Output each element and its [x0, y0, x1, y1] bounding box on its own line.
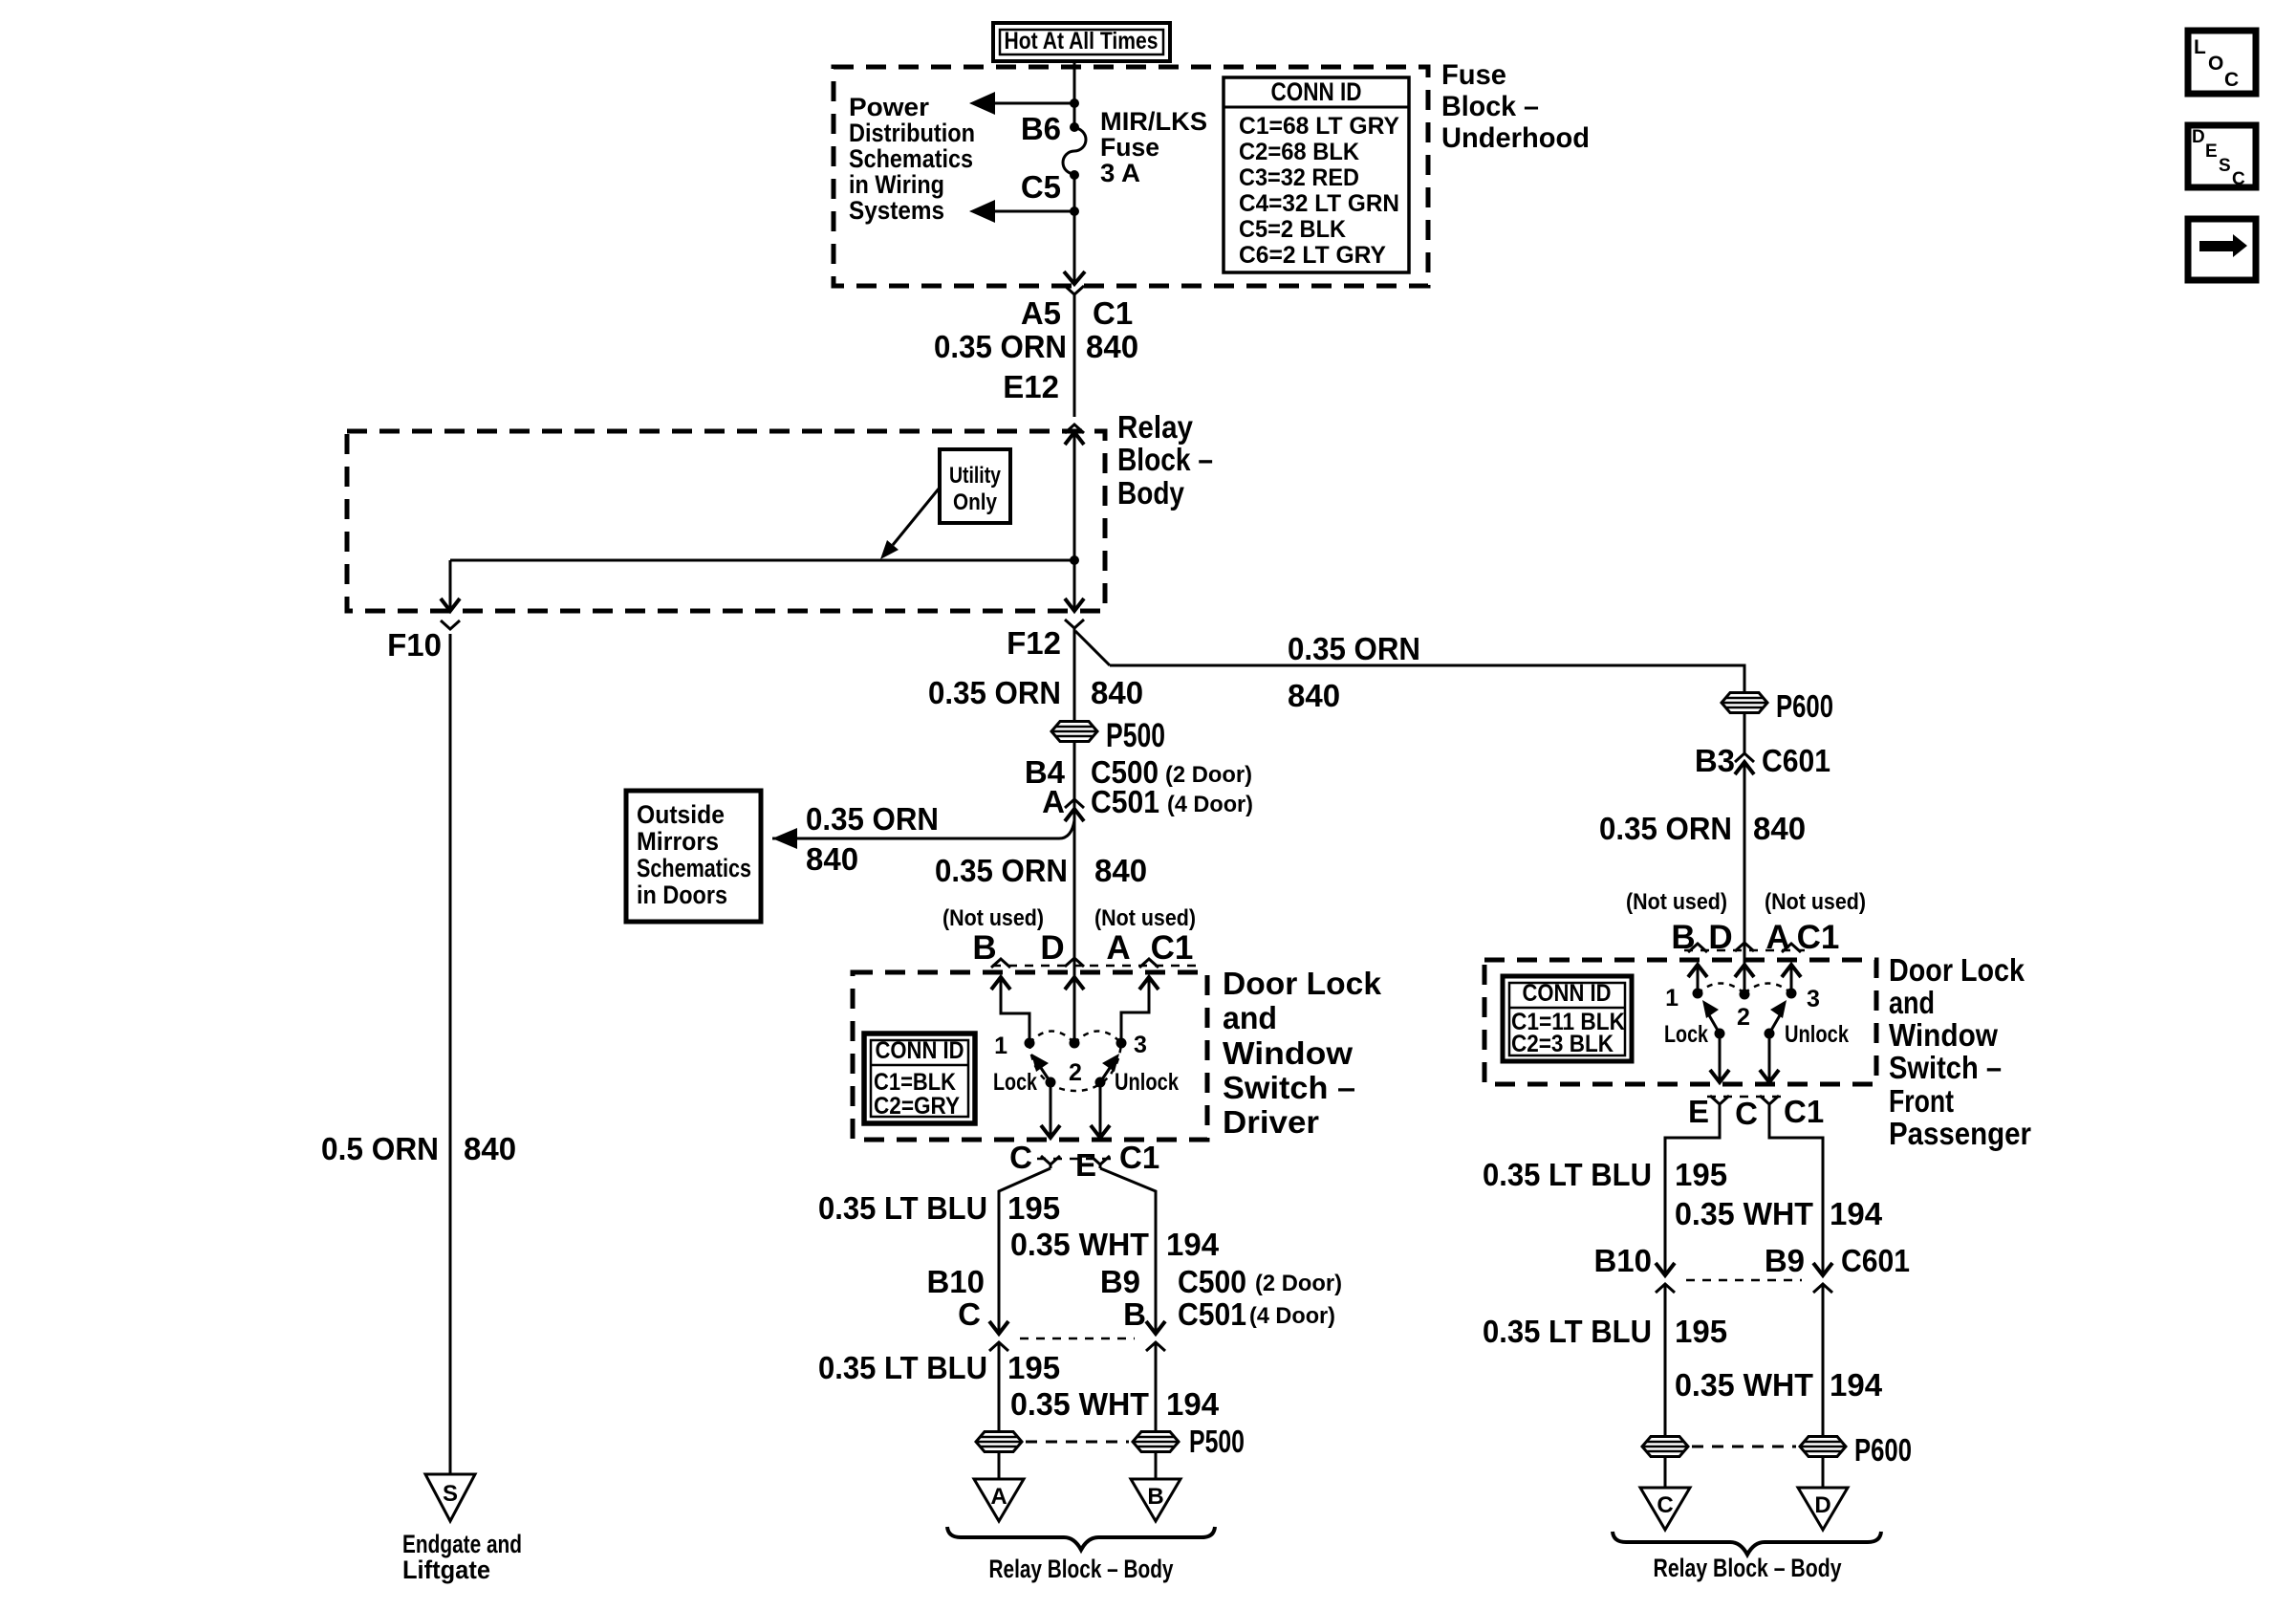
- off-page connector S (Endgate and Liftgate): [425, 1474, 475, 1521]
- terminal C triangle: [1640, 1488, 1690, 1530]
- svg-text:P600: P600: [1854, 1432, 1912, 1468]
- svg-text:3: 3: [1807, 986, 1820, 1012]
- svg-text:Outside: Outside: [637, 800, 725, 829]
- connector row C/E/C1 below driver switch (dashed): [1037, 1158, 1114, 1161]
- wire 194: pin C jog right (passenger): [1769, 1104, 1823, 1275]
- wire label: 0.35 WHT | 194: [1010, 1227, 1220, 1262]
- wire: switch contact 1 up to pin B with arrowhead: [991, 977, 1029, 1038]
- wire: lock blade down with arrowhead (passenger): [1710, 1033, 1729, 1082]
- wire: utility branch down to F10, arrowhead at block edge: [441, 560, 460, 611]
- svg-text:CONN ID: CONN ID: [1271, 77, 1362, 106]
- svg-text:F12: F12: [1007, 625, 1061, 661]
- svg-text:Window: Window: [1889, 1017, 1998, 1053]
- svg-text:840: 840: [1094, 853, 1147, 888]
- relay block - body dashed box: [347, 431, 1105, 611]
- svg-text:194: 194: [1830, 1196, 1883, 1231]
- wire 840: down to passenger switch: [1744, 762, 1746, 990]
- label: Door Lock and Window Switch - Driver: [1223, 966, 1382, 1140]
- svg-text:C: C: [1735, 1096, 1758, 1131]
- wire: P500 to relay block terminal B: [1155, 1452, 1158, 1479]
- svg-text:A5: A5: [1021, 295, 1061, 331]
- svg-text:Unlock: Unlock: [1785, 1021, 1849, 1048]
- svg-text:0.35 LT BLU: 0.35 LT BLU: [818, 1350, 987, 1385]
- svg-text:D: D: [1814, 1492, 1830, 1518]
- wire: P500 to relay block terminal A: [998, 1452, 1001, 1479]
- svg-text:0.35 LT BLU: 0.35 LT BLU: [1483, 1157, 1652, 1192]
- connector symbol right: arrow + chevron (passenger): [1813, 1263, 1832, 1293]
- svg-text:B10: B10: [1593, 1243, 1652, 1278]
- svg-text:C5=2 BLK: C5=2 BLK: [1239, 216, 1346, 243]
- wire: feed to fuse B6: [1073, 103, 1076, 127]
- connector chevron pin E (passenger): [1710, 1096, 1729, 1104]
- connector chevron trunk at pin D: [1065, 958, 1084, 967]
- svg-text:C: C: [1657, 1492, 1673, 1518]
- svg-text:P600: P600: [1776, 688, 1833, 724]
- switch blade: Lock (passenger): [1702, 1000, 1725, 1039]
- inline connector P500 left half: [976, 1432, 1022, 1452]
- switch contact 2: [1070, 1038, 1080, 1049]
- nav box arrow: [2188, 219, 2256, 280]
- arrowhead: trunk leaving relay block at F12: [1065, 598, 1084, 611]
- wire label: 0.35 ORN | 840: [934, 329, 1138, 364]
- svg-text:O: O: [2208, 53, 2223, 75]
- junction inside relay block: [1070, 555, 1079, 565]
- wire: lock blade down to pin C with arrowhead: [1041, 1082, 1060, 1138]
- svg-text:Relay: Relay: [1117, 409, 1194, 445]
- connector symbol left: arrow + chevron (passenger): [1656, 1263, 1675, 1293]
- svg-text:1: 1: [1665, 985, 1679, 1012]
- svg-text:C: C: [2224, 69, 2239, 91]
- svg-text:195: 195: [1675, 1314, 1727, 1349]
- callout box: Outside Mirrors Schematics in Doors: [626, 791, 761, 922]
- svg-text:E12: E12: [1003, 369, 1059, 404]
- pin B6 of fuse block: [1070, 122, 1079, 132]
- brace: relay block - body (left group): [947, 1527, 1215, 1550]
- svg-text:Mirrors: Mirrors: [637, 827, 719, 856]
- wire: unlock blade down to pin E with arrowhead: [1091, 1082, 1110, 1138]
- connector symbol left: arrow + chevron: [989, 1321, 1008, 1351]
- wire label: 0.35 LT BLU | 195 (passenger second): [1483, 1314, 1727, 1349]
- junction: lower tap to power distribution: [1070, 207, 1079, 216]
- svg-text:E: E: [1688, 1094, 1709, 1129]
- svg-text:Relay Block – Body: Relay Block – Body: [989, 1555, 1174, 1583]
- inline connector P500 (trunk): [1051, 717, 1165, 754]
- svg-text:D: D: [1040, 929, 1064, 967]
- junction: top tap to power distribution: [1070, 98, 1079, 108]
- wire 194: from pin E jogging right: [1100, 1168, 1156, 1334]
- svg-text:Window: Window: [1223, 1035, 1353, 1071]
- svg-text:Lock: Lock: [1664, 1021, 1708, 1048]
- label: Endgate and Liftgate: [402, 1530, 522, 1584]
- pins B D A C1 at passenger switch connector: [1671, 919, 1839, 956]
- svg-text:840: 840: [1086, 329, 1138, 364]
- terminal D triangle: [1798, 1488, 1848, 1530]
- label: Fuse Block - Underhood: [1441, 59, 1590, 154]
- svg-text:and: and: [1889, 985, 1935, 1020]
- node B+: Hot At All Times box: [993, 23, 1170, 61]
- svg-text:F10: F10: [387, 627, 442, 663]
- wire: arrow to power distribution schematics (lower): [969, 200, 1074, 223]
- svg-text:Door Lock: Door Lock: [1223, 966, 1382, 1001]
- svg-text:194: 194: [1830, 1367, 1883, 1403]
- svg-text:Relay Block – Body: Relay Block – Body: [1654, 1554, 1842, 1582]
- wire: trunk down into driver switch: [1073, 809, 1076, 1038]
- wire label: 0.35 ORN | 840 (above driver switch): [935, 853, 1147, 888]
- svg-text:Body: Body: [1117, 475, 1185, 511]
- arrow: utility only callout pointing to bus wire: [880, 488, 940, 559]
- connector chevron pin C (passenger): [1760, 1096, 1779, 1104]
- svg-text:0.35 WHT: 0.35 WHT: [1675, 1367, 1813, 1403]
- svg-text:Hot At All Times: Hot At All Times: [1005, 28, 1159, 54]
- svg-text:Only: Only: [953, 490, 998, 515]
- svg-text:C500: C500: [1178, 1264, 1246, 1299]
- svg-text:C2=3 BLK: C2=3 BLK: [1511, 1031, 1614, 1057]
- wire label: 0.35 ORN / 840 (branch): [1288, 631, 1420, 713]
- wire label: 0.35 ORN / 840 (mirror branch): [806, 801, 939, 877]
- connector F12: [1007, 620, 1084, 661]
- pin C5 of fuse block: [1070, 170, 1079, 180]
- svg-text:2: 2: [1069, 1059, 1082, 1086]
- svg-text:194: 194: [1166, 1227, 1220, 1262]
- switch contact 3 (passenger): [1787, 989, 1797, 999]
- svg-text:(Not used): (Not used): [1094, 905, 1196, 931]
- svg-text:L: L: [2194, 36, 2206, 58]
- svg-text:C1: C1: [1093, 295, 1133, 331]
- svg-text:0.5 ORN: 0.5 ORN: [321, 1131, 439, 1166]
- svg-text:3: 3: [1134, 1032, 1147, 1058]
- svg-text:Fuse: Fuse: [1441, 59, 1506, 91]
- svg-text:C2=68 BLK: C2=68 BLK: [1239, 139, 1359, 165]
- svg-text:B9: B9: [1100, 1264, 1140, 1299]
- connector F10: [387, 620, 460, 663]
- door lock and window switch - driver dashed box: [853, 972, 1207, 1140]
- svg-text:840: 840: [464, 1131, 516, 1166]
- svg-text:MIR/LKS: MIR/LKS: [1100, 107, 1207, 136]
- svg-text:P500: P500: [1106, 717, 1165, 754]
- nav box DESC: [2188, 125, 2256, 189]
- wire: branch to outside mirrors schematics with arrow: [772, 820, 1074, 849]
- svg-text:Block –: Block –: [1441, 91, 1539, 122]
- switch contact 1: [1025, 1038, 1035, 1049]
- wire label: 0.35 WHT | 194 (passenger second): [1675, 1367, 1883, 1403]
- wire 195: pin E jog left (passenger): [1665, 1104, 1720, 1275]
- svg-text:C501: C501: [1178, 1296, 1246, 1332]
- pins B D A C1 at driver switch connector: [972, 929, 1193, 967]
- svg-text:840: 840: [1288, 678, 1340, 713]
- CONN ID table of fuse block underhood: [1224, 77, 1409, 272]
- svg-text:C: C: [1009, 1140, 1032, 1175]
- wire label: 0.35 WHT | 194 (second): [1010, 1386, 1220, 1422]
- svg-text:0.35 WHT: 0.35 WHT: [1675, 1196, 1813, 1231]
- connector chevron pin C: [1041, 1156, 1060, 1168]
- svg-text:(Not used): (Not used): [1765, 889, 1866, 915]
- svg-text:C1: C1: [1784, 1094, 1824, 1129]
- connector row C1 at driver switch top (dashed): [992, 965, 1197, 968]
- svg-text:840: 840: [1091, 675, 1143, 710]
- svg-text:Switch –: Switch –: [1889, 1050, 2002, 1085]
- wire: branch from F12 to front passenger switch (diagonal): [1075, 631, 1110, 665]
- wire 840: branch to front passenger (horizontal): [1110, 665, 1744, 692]
- switch gang dashed arcs: [1029, 1032, 1121, 1092]
- svg-text:0.35 ORN: 0.35 ORN: [935, 853, 1068, 888]
- dashed link between P600 halves: [1692, 1446, 1796, 1448]
- connector A5 / C1 (fuse block output): [1021, 286, 1133, 331]
- svg-text:A: A: [990, 1484, 1007, 1510]
- svg-text:0.35 ORN: 0.35 ORN: [928, 675, 1061, 710]
- wire label: 0.35 ORN | 840 (passenger drop): [1599, 811, 1806, 846]
- terminal B triangle: [1131, 1479, 1180, 1521]
- wire label: 0.35 WHT | 194 (passenger): [1675, 1196, 1883, 1231]
- svg-text:195: 195: [1007, 1350, 1060, 1385]
- svg-text:S: S: [443, 1481, 458, 1507]
- svg-text:0.35 WHT: 0.35 WHT: [1010, 1227, 1149, 1262]
- door lock and window switch - front passenger dashed box: [1484, 960, 1876, 1084]
- svg-text:C1: C1: [1119, 1140, 1159, 1175]
- svg-text:1: 1: [994, 1033, 1007, 1059]
- svg-text:C1=68 LT GRY: C1=68 LT GRY: [1239, 113, 1399, 140]
- wire: passenger contact 2 arrowhead: [1735, 965, 1754, 977]
- connector B3 / C601: [1695, 743, 1830, 778]
- connector chevron pin B-D (not used): [1688, 944, 1707, 952]
- svg-text:B10: B10: [926, 1264, 985, 1299]
- inline connector P600 (trunk): [1722, 688, 1833, 724]
- terminal A triangle: [974, 1479, 1024, 1521]
- svg-text:E: E: [1075, 1147, 1096, 1183]
- connector B4-C500 (2 Door) / A-C501 (4 Door): [1025, 754, 1253, 821]
- svg-text:Liftgate: Liftgate: [402, 1556, 490, 1584]
- inline connector P500 right half: [1133, 1424, 1245, 1459]
- svg-text:0.35 ORN: 0.35 ORN: [934, 329, 1067, 364]
- svg-text:Distribution: Distribution: [849, 119, 975, 147]
- wire label: 0.35 ORN | 840 (above P500): [928, 675, 1143, 710]
- svg-text:840: 840: [1753, 811, 1806, 846]
- wire 840: 0.35 ORN from fuse block to relay block: [1073, 294, 1076, 417]
- label: (Not used) pins B and A-C1 driver: [942, 905, 1196, 931]
- CONN ID table of passenger switch: [1503, 976, 1632, 1061]
- svg-text:D: D: [2192, 127, 2205, 147]
- wire 194 below connector (passenger): [1822, 1292, 1825, 1436]
- svg-text:Schematics: Schematics: [637, 854, 751, 882]
- svg-text:B9: B9: [1765, 1243, 1805, 1278]
- svg-text:C601: C601: [1762, 743, 1830, 778]
- wire: passenger contact 3 up to pin with arrowhead: [1782, 965, 1801, 989]
- svg-text:(2 Door): (2 Door): [1255, 1271, 1342, 1296]
- wire: switch contact 2 up to pin D with arrowhead: [1065, 977, 1084, 990]
- svg-text:Systems: Systems: [849, 196, 944, 225]
- svg-text:E: E: [2205, 141, 2218, 162]
- svg-text:Unlock: Unlock: [1115, 1069, 1179, 1096]
- svg-text:S: S: [2219, 156, 2231, 176]
- wire label: 0.5 ORN | 840: [321, 1131, 516, 1166]
- svg-text:(4 Door): (4 Door): [1249, 1303, 1335, 1329]
- svg-text:B: B: [1147, 1484, 1163, 1510]
- svg-text:195: 195: [1675, 1157, 1727, 1192]
- svg-text:Passenger: Passenger: [1889, 1116, 2031, 1151]
- svg-text:in Doors: in Doors: [637, 881, 727, 909]
- svg-text:CONN ID: CONN ID: [1523, 980, 1612, 1007]
- wire: fuse output leaving fuse block, arrowhead at block edge: [1064, 211, 1085, 284]
- wire: arrow to power distribution schematics (upper): [969, 92, 1074, 115]
- svg-text:(2 Door): (2 Door): [1165, 762, 1252, 788]
- svg-text:C5: C5: [1021, 169, 1061, 205]
- connector E12 into relay block: [1003, 369, 1084, 445]
- svg-text:Fuse: Fuse: [1100, 133, 1159, 162]
- wire: P600 down to B3/C601: [1744, 713, 1746, 753]
- svg-text:3 A: 3 A: [1100, 159, 1140, 187]
- brace: relay block - body (right group): [1613, 1532, 1881, 1555]
- svg-text:Utility: Utility: [949, 463, 1002, 489]
- pin labels E C C1 (passenger): [1688, 1094, 1824, 1131]
- wire 195 below connector: [998, 1350, 1001, 1432]
- svg-text:Power: Power: [849, 93, 930, 121]
- svg-text:Driver: Driver: [1223, 1104, 1319, 1140]
- svg-text:and: and: [1223, 1000, 1277, 1035]
- connector chevron trunk: [1735, 943, 1754, 951]
- connector B10 / B9-C601 labels: [1593, 1243, 1910, 1278]
- wire: horizontal bus inside relay block to utility branch: [450, 559, 1074, 562]
- svg-text:P500: P500: [1189, 1424, 1245, 1459]
- connector row E/C/C1 below passenger switch (dashed): [1707, 1096, 1782, 1099]
- svg-text:0.35 ORN: 0.35 ORN: [806, 801, 939, 837]
- fuse block - underhood dashed box: [834, 67, 1428, 286]
- connector chevron pin B (not used): [991, 959, 1010, 968]
- svg-text:B3: B3: [1695, 743, 1735, 778]
- dashed link between P500 halves: [1026, 1441, 1129, 1444]
- svg-text:C: C: [958, 1296, 981, 1332]
- label: (Not used) pins passenger: [1626, 889, 1866, 915]
- CONN ID table of driver switch: [864, 1033, 975, 1123]
- svg-text:Switch –: Switch –: [1223, 1070, 1355, 1105]
- switch gang dashed arcs (passenger): [1698, 984, 1791, 994]
- note: Power Distribution Schematics in Wiring Systems: [849, 93, 975, 225]
- wire 195 below connector (passenger): [1664, 1292, 1667, 1436]
- wire 840: 0.5 ORN utility branch down to endgate: [449, 634, 452, 1474]
- svg-text:840: 840: [806, 841, 858, 877]
- svg-text:(Not used): (Not used): [1626, 889, 1727, 915]
- svg-text:Door Lock: Door Lock: [1889, 952, 2025, 988]
- fuse F: MIR/LKS Fuse 3 A (coil symbol): [1063, 128, 1086, 174]
- svg-text:(4 Door): (4 Door): [1167, 792, 1253, 817]
- switch blade: Unlock (passenger): [1765, 1000, 1787, 1039]
- connector B9-C500 / B-C501 (right pin) labels: [1100, 1264, 1342, 1332]
- svg-text:0.35 LT BLU: 0.35 LT BLU: [1483, 1314, 1652, 1349]
- svg-text:B: B: [972, 929, 996, 967]
- wire label: 0.35 LT BLU | 195 (passenger): [1483, 1157, 1727, 1192]
- connector row C1 at passenger switch top (dashed): [1684, 949, 1805, 952]
- svg-text:A: A: [1106, 929, 1130, 967]
- wire: switch contact 3 up to pin A with arrowhead: [1121, 977, 1159, 1038]
- wire: trunk below F12 down to P500: [1073, 628, 1076, 721]
- svg-text:Block –: Block –: [1117, 442, 1213, 477]
- wire 194 below connector: [1155, 1350, 1158, 1432]
- svg-text:C4=32 LT GRN: C4=32 LT GRN: [1239, 190, 1399, 217]
- connector B10-C500 / C-C501 (left pin) labels: [926, 1264, 985, 1332]
- wire 195: from pin C jogging left: [999, 1168, 1051, 1334]
- switch contact 2 (passenger): [1740, 990, 1750, 1000]
- wire: trunk inside relay block (vertical): [1073, 432, 1076, 611]
- svg-text:0.35 ORN: 0.35 ORN: [1288, 631, 1420, 666]
- nav box LOC: [2188, 31, 2256, 94]
- svg-text:C: C: [2232, 169, 2245, 189]
- connector chevron pin E: [1091, 1156, 1110, 1168]
- wire label: 0.35 LT BLU | 195: [818, 1190, 1060, 1226]
- svg-text:195: 195: [1007, 1190, 1060, 1226]
- svg-text:C2=GRY: C2=GRY: [874, 1093, 960, 1120]
- connector row dashed line (C500/C501): [1020, 1338, 1135, 1340]
- connector row dashed line (C601 bottom): [1686, 1279, 1802, 1282]
- wire: P600 to relay block terminal D: [1822, 1457, 1825, 1488]
- wire: P600 to relay block terminal C: [1664, 1457, 1667, 1488]
- label: Door Lock and Window Switch - Front Passenger: [1889, 952, 2031, 1151]
- svg-text:Schematics: Schematics: [849, 144, 973, 173]
- wire: fuse output down to lower junction: [1073, 175, 1076, 211]
- svg-text:B: B: [1123, 1296, 1146, 1332]
- switch contact 3: [1116, 1038, 1127, 1049]
- inline connector P600 right half: [1800, 1432, 1912, 1468]
- svg-text:C601: C601: [1841, 1243, 1910, 1278]
- svg-text:C1: C1: [1151, 929, 1194, 967]
- svg-text:0.35 LT BLU: 0.35 LT BLU: [818, 1190, 987, 1226]
- svg-text:0.35 WHT: 0.35 WHT: [1010, 1386, 1149, 1422]
- wire: battery feed from Hot box into fuse block: [1073, 61, 1076, 103]
- wire: unlock blade down with arrowhead (passenger): [1760, 1033, 1779, 1082]
- wire label: 0.35 LT BLU | 195 (second): [818, 1350, 1060, 1385]
- svg-text:Front: Front: [1889, 1083, 1954, 1119]
- svg-text:A: A: [1042, 784, 1065, 819]
- svg-text:2: 2: [1737, 1004, 1750, 1031]
- label: Relay Block - Body: [1117, 409, 1213, 511]
- inline connector P600 left half: [1642, 1437, 1688, 1457]
- callout box: Utility Only: [940, 449, 1010, 523]
- svg-text:B6: B6: [1021, 111, 1061, 146]
- value label: MIR/LKS Fuse 3 A: [1100, 107, 1207, 187]
- svg-text:C1=BLK: C1=BLK: [874, 1069, 956, 1096]
- wire: P500 down to door connector: [1073, 741, 1076, 809]
- svg-text:0.35 ORN: 0.35 ORN: [1599, 811, 1732, 846]
- wire: passenger contact 1 up to pin with arrowhead: [1688, 965, 1707, 989]
- svg-text:C501: C501: [1091, 784, 1159, 819]
- svg-text:Underhood: Underhood: [1441, 122, 1590, 154]
- switch blade: Lock (pivot to contact 1): [1031, 1054, 1056, 1088]
- svg-text:in Wiring: in Wiring: [849, 170, 944, 199]
- connector symbol right: arrow + chevron: [1146, 1321, 1165, 1351]
- svg-text:(Not used): (Not used): [942, 905, 1044, 931]
- switch blade: Unlock (pivot to contact 3): [1095, 1054, 1120, 1088]
- pin labels C E C1: [1009, 1140, 1159, 1183]
- connector chevron pin A/C1 (not used): [1139, 959, 1159, 968]
- svg-text:C6=2 LT GRY: C6=2 LT GRY: [1239, 242, 1386, 269]
- switch contact 1 (passenger): [1693, 989, 1703, 999]
- svg-text:Endgate and: Endgate and: [402, 1530, 522, 1558]
- svg-text:C3=32 RED: C3=32 RED: [1239, 164, 1359, 191]
- svg-text:194: 194: [1166, 1386, 1220, 1422]
- connector chevron pin A-C1 (not used): [1782, 944, 1801, 952]
- svg-text:CONN ID: CONN ID: [876, 1037, 964, 1064]
- svg-text:Lock: Lock: [993, 1069, 1037, 1096]
